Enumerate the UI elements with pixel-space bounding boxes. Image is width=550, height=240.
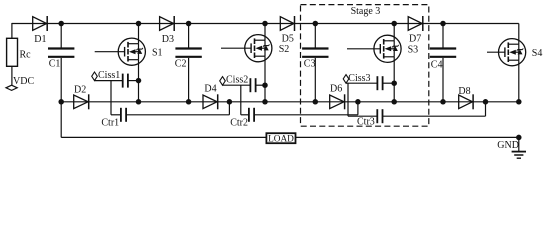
junction: lower rail node x=443.0 [440, 99, 446, 105]
capacitor Ciss2 [249, 78, 251, 92]
wire: C3 to lower diode rail [314, 58, 316, 102]
diode D6 [330, 95, 344, 109]
svg-text:Ciss1: Ciss1 [98, 70, 120, 81]
transistor S1 (power MOSFET with body diode) [118, 38, 145, 65]
Stage 3 dashed boundary box [301, 5, 429, 127]
svg-text:C1: C1 [49, 59, 61, 70]
diode D8 [459, 95, 473, 109]
capacitor Ctr2 [248, 108, 250, 122]
resistor Rc [7, 38, 18, 66]
junction: lower rail node x=518.8 [516, 99, 522, 105]
svg-text:S1: S1 [152, 48, 163, 59]
svg-text:Ciss3: Ciss3 [348, 73, 370, 84]
wire: gate lead of S3 [347, 48, 380, 50]
diode D7 [408, 17, 422, 31]
svg-text:Stage 3: Stage 3 [351, 6, 381, 17]
wire: Ctr1 right lead to next-stage node [126, 114, 229, 116]
svg-text:D2: D2 [74, 85, 86, 96]
wire: top rail to C2 [188, 24, 190, 48]
svg-text:LOAD: LOAD [268, 134, 294, 144]
svg-text:D3: D3 [162, 34, 174, 45]
wire: gate node to Ciss3 left plate [346, 82, 377, 84]
wire: C2 to lower diode rail [188, 58, 190, 102]
svg-text:Ciss2: Ciss2 [226, 75, 248, 86]
svg-text:VDC: VDC [13, 76, 34, 87]
diode D2 [74, 95, 88, 109]
wire: riser from gate node down to Ctr3 (crosses diode rail) [347, 83, 349, 116]
junction: lower rail node x=138.5 [136, 99, 142, 105]
junction: top rail node x=443.0 [440, 21, 446, 27]
junction dot: Ciss1 at source of S1 [136, 78, 142, 84]
wire: Ctr2 right lead to next-stage node [254, 114, 358, 116]
capacitor C3 [302, 47, 328, 49]
wire: Ciss1 right plate to source line [128, 80, 139, 82]
junction: lower rail node x=188.6 [186, 99, 192, 105]
wire: riser from gate node down to Ctr1 (crosses diode rail) [110, 81, 112, 115]
capacitor C4 [430, 47, 456, 49]
svg-text:S4: S4 [532, 48, 543, 59]
junction: top rail node x=188.6 [186, 21, 192, 27]
wire: riser from gate node down to Ctr2 (crosses diode rail) [240, 85, 242, 115]
wire: lower diode rail [61, 101, 519, 103]
diode D5 [280, 17, 294, 31]
junction: lower rail node x=357.9 [355, 99, 361, 105]
VDC source terminal (open diamond) [6, 85, 17, 90]
svg-text:S2: S2 [279, 44, 290, 55]
ground symbol [512, 152, 526, 159]
wire: C1 to lower diode rail [60, 58, 62, 102]
svg-text:D5: D5 [282, 34, 294, 45]
capacitor C1 [48, 47, 74, 49]
wire: Ctr3 riser up to lower diode rail [485, 102, 487, 116]
junction: top rail node x=61.2 [58, 21, 64, 27]
wire: Ctr1 left lead [111, 114, 121, 116]
wire: bottom rail to ground [518, 137, 520, 151]
junction: lower rail node x=485.5 [483, 99, 489, 105]
capacitor Ctr3 [376, 109, 378, 123]
svg-text:D8: D8 [458, 86, 470, 97]
diode D4 [203, 95, 217, 109]
diode D3 [160, 17, 174, 31]
wire: gate lead of S4 [487, 51, 505, 53]
capacitor Ctr1 [120, 108, 122, 122]
wire: source of S4 to lower diode rail [518, 60, 520, 102]
svg-text:D4: D4 [204, 84, 216, 95]
load block LOAD [266, 133, 295, 143]
wire: Ctr1 riser up to lower diode rail [228, 102, 230, 115]
wire: source of S1 to lower diode rail [138, 60, 140, 102]
svg-text:C2: C2 [175, 59, 187, 70]
junction: lower rail node x=265.0 [262, 99, 268, 105]
wire: Ctr2 left lead [241, 114, 249, 116]
wire: drain of S4 to top rail [518, 24, 520, 45]
junction: lower rail node x=229.4 [227, 99, 233, 105]
transistor S4 (power MOSFET with body diode) [498, 39, 525, 66]
svg-text:C3: C3 [304, 59, 316, 70]
wire: Rc to VDC terminal [11, 66, 13, 85]
gate node arrow (open diamond) of stage 2 [220, 77, 226, 86]
svg-text:Ctr3: Ctr3 [357, 117, 375, 128]
junction dot: Ciss3 at source of S3 [391, 80, 397, 86]
wire: gate node to Ciss2 left plate [223, 84, 251, 86]
wire: top rail to C3 [314, 24, 316, 48]
junction: top rail node x=138.5 [136, 21, 142, 27]
wire: drain of S1 to top rail [138, 24, 140, 44]
svg-text:D6: D6 [330, 84, 342, 95]
wire: drain of S3 to top rail [393, 24, 395, 41]
wire: gate node to Ciss1 left plate [95, 80, 123, 82]
svg-text:Rc: Rc [20, 50, 32, 61]
junction: lower rail node x=394.2 [391, 99, 397, 105]
wire: bottom load/ground rail [61, 136, 519, 138]
junction: top rail node x=315.3 [313, 21, 319, 27]
wire: source of S3 to lower diode rail [393, 57, 395, 102]
svg-text:Ctr2: Ctr2 [230, 118, 248, 129]
svg-text:C4: C4 [431, 60, 443, 71]
wire: Ctr3 right lead to next-stage node [383, 115, 486, 117]
junction: top rail node x=265.0 [262, 21, 268, 27]
junction: bottom rail at ground [516, 135, 522, 141]
wire: gate lead of S1 [95, 51, 125, 53]
transistor S2 (power MOSFET with body diode) [245, 35, 272, 62]
junction dot: Ciss2 at source of S2 [262, 82, 268, 88]
wire: source of S2 to lower diode rail [264, 56, 266, 102]
junction: lower rail node x=61.2 [58, 99, 64, 105]
wire: Ciss2 right plate to source line [256, 84, 265, 86]
wire: gate lead of S2 [221, 47, 251, 49]
junction: lower rail node x=315.3 [313, 99, 319, 105]
svg-text:Ctr1: Ctr1 [101, 117, 119, 128]
svg-text:GND: GND [497, 140, 519, 151]
capacitor C2 [175, 47, 201, 49]
wire: top pump rail [12, 23, 519, 25]
wire: top rail to C1 [60, 24, 62, 48]
wire: top rail corner down to Rc [11, 23, 13, 38]
gate node arrow (open diamond) of stage 3 [343, 75, 349, 84]
wire: Ctr3 left lead [348, 115, 377, 117]
wire: drain of S2 to top rail [264, 24, 266, 41]
wire: C4 to lower diode rail [442, 58, 444, 102]
transistor S3 (power MOSFET with body diode) [374, 35, 401, 62]
svg-text:D1: D1 [34, 34, 46, 45]
junction: top rail node x=394.2 [391, 21, 397, 27]
capacitor Ciss3 [376, 76, 378, 90]
wire: Ciss3 right plate to source line [383, 82, 395, 84]
wire: C1/D2 node down to bottom rail [60, 102, 62, 138]
wire: Ctr2 riser up to lower diode rail [357, 102, 359, 115]
gate node arrow (open diamond) of stage 1 [92, 72, 98, 81]
diode D1 [33, 17, 47, 31]
svg-text:D7: D7 [409, 33, 421, 44]
capacitor Ciss1 [122, 74, 124, 88]
svg-text:S3: S3 [408, 45, 419, 56]
wire: top rail to C4 [442, 24, 444, 48]
